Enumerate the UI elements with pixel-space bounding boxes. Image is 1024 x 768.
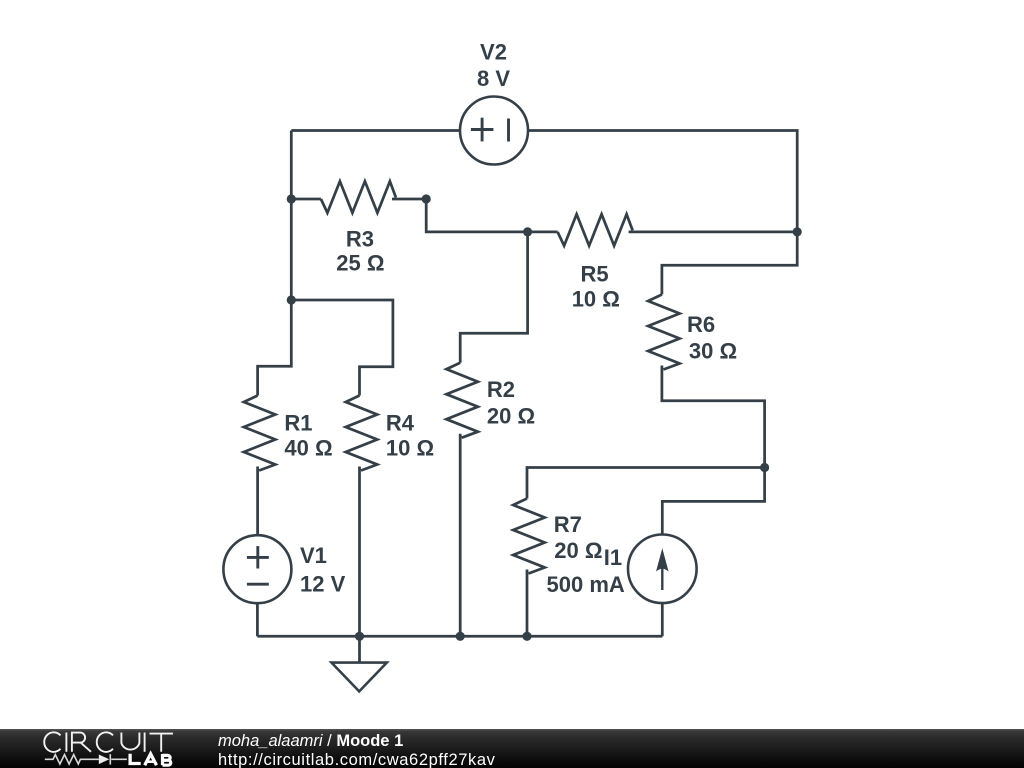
wire bottom rail [257,635,662,638]
wire R7 bottom lead [526,570,529,637]
resistor R1 [244,396,275,471]
wire R5 right lead [629,231,798,234]
svg-text:V2: V2 [480,40,507,65]
wire I1 bottom lead [661,603,664,636]
wire R5 left lead [528,231,558,234]
resistor R4 [346,396,378,471]
node dot ground [355,632,364,641]
svg-text:R6: R6 [687,312,715,337]
node dot R1/R4 split [287,295,296,304]
node dot B [760,463,769,472]
node dot R2 bottom [456,632,465,641]
svg-text:12 V: 12 V [300,571,346,596]
logo letter U [121,733,139,750]
footer title line [218,732,403,751]
svg-text:20 Ω: 20 Ω [554,538,602,563]
svg-text:10 Ω: 10 Ω [386,435,434,460]
logo letter I [65,733,67,752]
wire V1 bottom lead [256,603,259,636]
logo LAB letters [130,754,171,766]
wire R4 branch horizontal [291,300,393,396]
resistor R3 [321,181,396,213]
node dot R5 right [793,227,802,236]
wire R3 right lead and down to R5 row [392,199,528,232]
svg-text:10 Ω: 10 Ω [572,287,620,312]
resistor R7 [513,499,545,574]
voltage source V2 [460,97,528,165]
wire top horizontal to V2 [291,129,460,132]
node dot R5 left [523,227,532,236]
footer bar [0,729,1024,768]
logo letter R [72,733,91,752]
wire R1 bottom lead to V1 [256,467,259,536]
logo letter C [97,732,113,752]
svg-text:20 Ω: 20 Ω [487,404,535,429]
CircuitLab logo [0,729,200,768]
wire node B left to R7 top [527,468,765,499]
wire R3 left lead [291,198,321,201]
wire R4 bottom lead [358,467,361,637]
wire R6 bottom to node B [662,366,765,468]
wire R2 branch from R5 node [460,232,527,363]
svg-text:R4: R4 [386,410,415,435]
svg-text:R1: R1 [284,410,312,435]
wire top-left vertical [258,131,292,396]
svg-text:I1: I1 [604,545,622,570]
node dot R3 right [422,194,431,203]
svg-text:8 V: 8 V [477,66,510,91]
svg-text:40 Ω: 40 Ω [284,435,332,460]
node dot R3 left [287,194,296,203]
resistor R5 [558,214,633,246]
wire node B down to I1 top [662,468,764,535]
logo letter T [150,734,174,752]
node dot R7 bottom [522,632,531,641]
svg-text:R3: R3 [346,226,374,251]
wire V2 right to corner [528,131,797,232]
footer url line [218,751,496,768]
wire node R5R6 down-left to R6 [662,232,797,295]
logo letter C [44,732,60,752]
svg-text:R2: R2 [487,377,515,402]
svg-text:30 Ω: 30 Ω [689,338,737,363]
ground [332,663,387,692]
resistor R6 [648,295,680,370]
svg-text:25 Ω: 25 Ω [336,251,384,276]
svg-text:V1: V1 [300,543,327,568]
logo letter I [144,733,146,752]
voltage source V1 [223,535,291,603]
wire ground stub [358,636,361,662]
logo resistor-diode symbol [45,754,127,765]
current source I1 [628,535,697,604]
svg-text:500 mA: 500 mA [547,572,625,597]
svg-text:R5: R5 [581,261,609,286]
wire R2 bottom lead [459,434,462,637]
svg-text:R7: R7 [554,512,582,537]
resistor R2 [446,363,478,438]
